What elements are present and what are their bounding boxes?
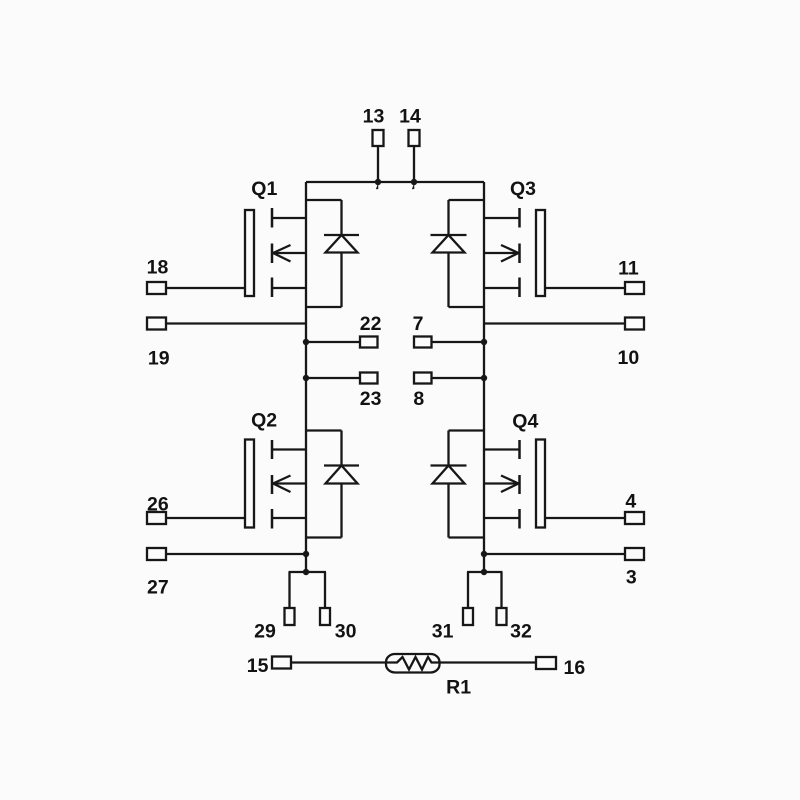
pin 13 (373, 130, 384, 182)
pin 4 (Q4 gate) (545, 512, 644, 524)
svg-text:Q3: Q3 (510, 178, 536, 200)
svg-text:29: 29 (254, 621, 276, 643)
svg-text:8: 8 (413, 388, 424, 410)
pin 30 label (335, 621, 357, 643)
junction wire22/left bus (303, 339, 309, 345)
wire right bus: rail to Q3 drain/source and down to Q4 (node B) (483, 182, 485, 572)
transistor Q4 body arrow (484, 476, 519, 493)
junction Q4 source tee (481, 569, 487, 575)
wire top rail (node V+) (306, 181, 484, 183)
pin 31 (463, 608, 473, 625)
svg-text:31: 31 (432, 621, 454, 643)
pin 4 label (625, 491, 636, 513)
pin 18 label (147, 257, 169, 279)
transistor Q1 source stub (272, 287, 306, 289)
pin 19 label (148, 348, 170, 370)
pin 14 (409, 130, 420, 182)
body diode of Q2 (306, 431, 359, 538)
wire tee left leg to pin 31 (467, 572, 469, 608)
junction wire8/right bus (481, 375, 487, 381)
pin 22 label (360, 313, 382, 335)
junction wire3/right bus (481, 551, 487, 557)
pin 18 (Q1 gate) (147, 282, 245, 294)
pin 15 (R1 left) (272, 657, 386, 669)
transistor Q2 source stub (272, 517, 306, 519)
body diode of Q3 (431, 200, 485, 307)
svg-text:13: 13 (363, 106, 385, 128)
pin 10 (node B) (484, 318, 644, 330)
wire left bus: rail to Q1 drain/source and down to Q2 (node A) (305, 182, 307, 572)
transistor Q3 channel dashes (518, 208, 521, 297)
transistor Q3 source stub (484, 287, 520, 289)
pin 13 label (363, 106, 385, 128)
svg-text:32: 32 (510, 621, 532, 643)
transistor Q3 label (510, 178, 536, 200)
svg-text:15: 15 (247, 655, 269, 677)
wire tee right leg to pin 32 (500, 572, 502, 608)
svg-text:Q4: Q4 (512, 411, 538, 433)
junction wire27/left bus (303, 551, 309, 557)
transistor Q4 source stub (484, 517, 520, 519)
svg-text:22: 22 (360, 313, 382, 335)
pin 22 (node A) (306, 337, 378, 348)
pin 23 label (360, 388, 382, 410)
svg-text:10: 10 (618, 347, 640, 369)
wire Q4 source tee bar (467, 571, 503, 573)
pin 8 label (413, 388, 424, 410)
transistor Q2 channel dashes (271, 440, 274, 529)
junction Q2 source tee (303, 569, 309, 575)
svg-text:26: 26 (147, 494, 169, 516)
pin 29 label (254, 621, 276, 643)
transistor Q1 gate bar (245, 210, 254, 296)
transistor Q1 body arrow (273, 245, 306, 262)
pin 23 (node A) (306, 373, 378, 384)
pin 32 label (510, 621, 532, 643)
pin 14 label (399, 106, 421, 128)
junction wire23/left bus (303, 375, 309, 381)
transistor Q1 drain stub (272, 217, 306, 219)
transistor Q4 gate bar (536, 440, 545, 528)
junction pin14/top rail (411, 179, 417, 189)
pin 26 (Q2 gate) (147, 512, 245, 524)
pin 32 (497, 608, 507, 625)
pin 30 (320, 608, 330, 625)
transistor Q2 gate bar (245, 440, 254, 528)
body diode of Q4 (431, 431, 485, 538)
transistor Q3 gate bar (536, 210, 545, 296)
svg-text:3: 3 (626, 567, 637, 589)
transistor Q3 drain stub (484, 217, 520, 219)
pin 15 label (247, 655, 269, 677)
transistor Q4 label (512, 411, 538, 433)
pin 11 label (618, 258, 639, 280)
pin 29 (285, 608, 295, 625)
pin 11 (Q3 gate) (545, 282, 644, 294)
svg-text:16: 16 (563, 657, 585, 679)
pin 19 (node A) (147, 318, 306, 330)
wire Q2 source tee bar (289, 571, 327, 573)
pin 26 label (147, 494, 169, 516)
thermistor R1 (386, 654, 440, 673)
svg-text:18: 18 (147, 257, 169, 279)
svg-text:11: 11 (618, 258, 639, 280)
transistor Q2 body arrow (273, 476, 306, 493)
wire R1 to pin 16 (440, 661, 537, 663)
pin 3 label (626, 567, 637, 589)
transistor Q1 label (251, 178, 277, 200)
svg-text:4: 4 (625, 491, 636, 513)
svg-text:R1: R1 (446, 677, 471, 699)
transistor Q3 body arrow (484, 245, 519, 262)
pin 10 label (618, 347, 640, 369)
pin 31 label (432, 621, 454, 643)
pin 27 label (147, 577, 169, 599)
pin 16 (R1 right) (536, 657, 556, 669)
wire tee left leg to pin 29 (288, 572, 290, 608)
transistor Q4 drain stub (484, 448, 520, 450)
transistor Q2 label (251, 410, 277, 432)
svg-text:19: 19 (148, 348, 170, 370)
junction pin13/top rail (375, 179, 381, 189)
svg-text:30: 30 (335, 621, 357, 643)
pin 16 label (563, 657, 585, 679)
junction wire7/right bus (481, 339, 487, 345)
pin 7 label (413, 313, 424, 335)
pin 3 (Q4 source) (484, 548, 644, 560)
svg-text:14: 14 (399, 106, 421, 128)
pin 7 (node B) (414, 337, 484, 348)
pin 27 (Q2 source) (147, 548, 306, 560)
pin 8 (node B) (414, 373, 484, 384)
svg-text:23: 23 (360, 388, 382, 410)
transistor Q4 channel dashes (518, 440, 521, 529)
svg-text:Q1: Q1 (251, 178, 277, 200)
svg-text:27: 27 (147, 577, 169, 599)
body diode of Q1 (306, 200, 359, 307)
transistor Q1 channel dashes (271, 208, 274, 297)
svg-text:7: 7 (413, 313, 424, 335)
svg-text:Q2: Q2 (251, 410, 277, 432)
wire tee right leg to pin 30 (324, 572, 326, 608)
transistor Q2 drain stub (272, 448, 306, 450)
R1 label (446, 677, 471, 699)
